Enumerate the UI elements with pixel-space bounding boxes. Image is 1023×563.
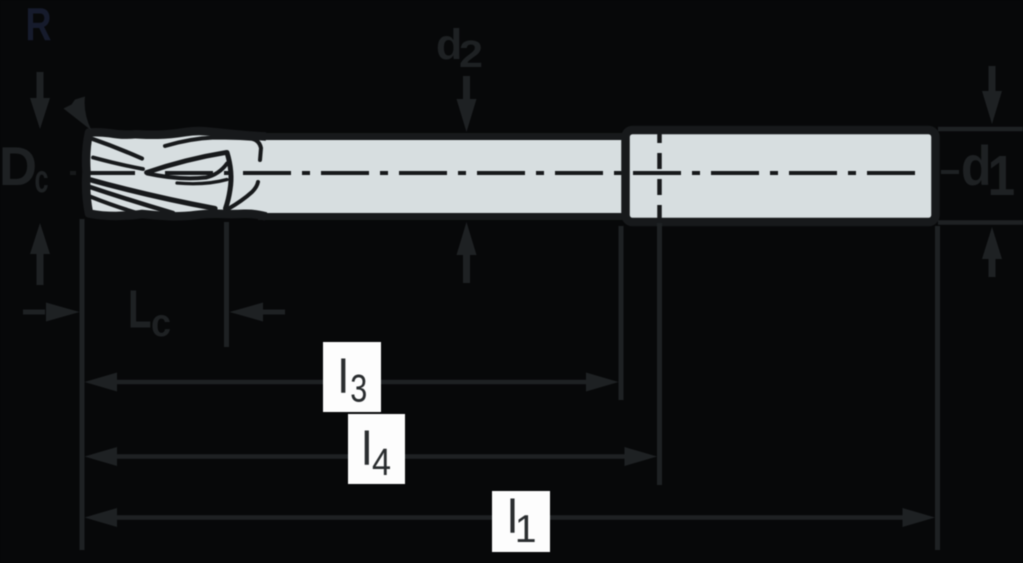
extension line: l1 right (935, 226, 940, 550)
l3 dimension line (85, 373, 619, 392)
l4 dimension line (85, 447, 658, 466)
svg-text:2: 2 (459, 34, 483, 76)
R leader arrow (64, 97, 92, 131)
flute helix lines (86, 138, 262, 214)
extension line: l3 right (shank start) (619, 226, 624, 400)
svg-text:D: D (0, 135, 37, 197)
l1 dimension line (85, 508, 936, 527)
svg-text:R: R (26, 0, 52, 50)
node: l4 boundary dashed line in shank (657, 127, 662, 223)
l1 label box (492, 491, 550, 552)
svg-text:L: L (128, 280, 152, 340)
d1 dimension ticks (938, 129, 1023, 223)
cutter head outline (open, right edge unstroked) (86, 131, 266, 216)
svg-text:1: 1 (988, 144, 1016, 207)
svg-text:1: 1 (515, 508, 537, 551)
d2 bottom arrow (up) (457, 222, 477, 283)
svg-text:l: l (338, 351, 349, 404)
Dc bottom arrow (up) (30, 223, 50, 285)
Dc top arrow (down) (30, 72, 50, 129)
shank (body right) (626, 130, 936, 222)
svg-text:4: 4 (372, 442, 391, 484)
extension line: tool tip left (80, 219, 85, 550)
l4 label box (348, 414, 405, 484)
d2 top arrow (down) (457, 76, 477, 132)
d1 bottom arrow (up) (982, 227, 1002, 277)
d1 center tick (941, 170, 959, 174)
svg-text:c: c (35, 158, 49, 201)
Lc dimension arrows (outside, pointing inward) (23, 303, 285, 322)
svg-text:c: c (151, 302, 171, 345)
neck outline top and bottom (258, 137, 625, 217)
body fill: cutter head + neck (86, 131, 625, 216)
l3 label box (323, 342, 381, 412)
extension line: Lc right (224, 222, 229, 347)
svg-text:l: l (362, 423, 373, 476)
extension line: l4 right (below shank) (657, 223, 662, 485)
d1 top arrow (down) (982, 66, 1002, 124)
svg-text:3: 3 (350, 368, 367, 411)
wire: centerline dash-dot (70, 171, 920, 175)
